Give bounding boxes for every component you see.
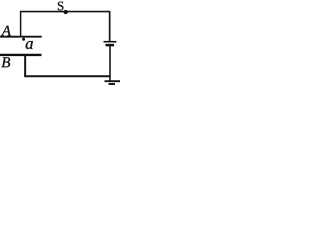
- label A: [1, 26, 11, 36]
- node a dot: [22, 38, 25, 41]
- label S: [58, 2, 64, 11]
- capacitor plate B: [0, 54, 42, 56]
- wire: battery down to ground: [109, 46, 111, 80]
- wire: bottom horizontal: [24, 75, 110, 77]
- battery short thick plate (-): [106, 44, 115, 47]
- switch S junction dot: [63, 10, 68, 14]
- wire: from plate B down: [24, 56, 26, 76]
- ground bar 2: [109, 83, 116, 85]
- wire: right vertical from top wire to battery: [109, 11, 111, 41]
- capacitor plate A: [0, 36, 42, 38]
- wire: top horizontal: [20, 11, 110, 13]
- ground bar 1: [105, 80, 121, 82]
- label a: [26, 41, 33, 49]
- label B: [1, 57, 10, 67]
- wire: left vertical from top wire down to plate A: [20, 12, 22, 37]
- battery long plate (+): [104, 41, 117, 43]
